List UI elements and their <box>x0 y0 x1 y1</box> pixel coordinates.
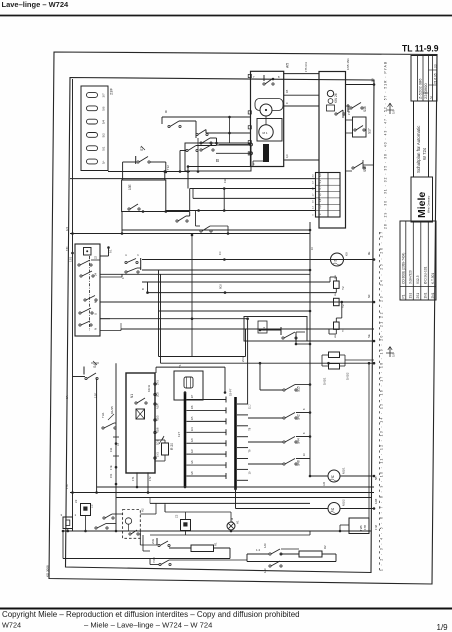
program switch dashed axis <box>89 256 91 331</box>
motor M1-2 <box>328 503 340 515</box>
switch S17 box <box>353 117 367 137</box>
svg-text:4: 4 <box>253 162 255 166</box>
switch 1-1 feed <box>260 329 281 331</box>
switch 1-1 label <box>258 321 267 333</box>
svg-text:1T5 1N1: 1T5 1N1 <box>304 61 308 72</box>
svg-text:B: B <box>141 288 145 290</box>
left edge bus wire <box>72 79 74 531</box>
bus wire y178 <box>70 178 316 180</box>
control unit bottom stubs <box>136 472 138 487</box>
bus wire y497 <box>116 497 372 499</box>
svg-text:Schaltplan für Automatic: Schaltplan für Automatic <box>416 125 421 173</box>
svg-text:17E: 17E <box>109 465 113 470</box>
svg-text:0: 0 <box>313 214 315 216</box>
svg-text:1A0: 1A0 <box>263 543 267 548</box>
svg-text:151: 151 <box>109 473 113 478</box>
svg-text:9F: 9F <box>164 110 168 113</box>
wire drive-kw 4 <box>284 159 319 161</box>
svg-text:17B: 17B <box>363 525 367 530</box>
valve coil <box>184 377 193 388</box>
svg-text:Y2: Y2 <box>341 286 345 290</box>
svg-text:Nr: Nr <box>429 96 433 99</box>
contact 9 below <box>125 271 127 273</box>
tacho wire loop <box>255 99 283 111</box>
svg-text:21.6.95: 21.6.95 <box>433 73 437 84</box>
svg-text:1T2: 1T2 <box>148 476 152 481</box>
svg-text:8: 8 <box>303 408 306 410</box>
outer drawing frame <box>49 52 437 584</box>
svg-text:S15: S15 <box>297 386 301 392</box>
svg-text:Z2: Z2 <box>90 504 94 508</box>
svg-text:4,0: 4,0 <box>313 174 315 178</box>
switch S31 <box>95 527 97 529</box>
program contact p24 <box>80 275 82 277</box>
svg-text:1/1: 1/1 <box>191 460 194 464</box>
svg-text:1/2: 1/2 <box>191 449 194 453</box>
svg-text:3N1: 3N1 <box>335 274 337 279</box>
switch contact a4 <box>186 149 188 151</box>
svg-text:Z3: Z3 <box>74 499 78 503</box>
drive unit terminals <box>248 74 251 77</box>
svg-text:K1/35: K1/35 <box>110 406 114 414</box>
program wire N out <box>100 330 121 332</box>
switch 7NW <box>159 563 161 565</box>
svg-text:T12: T12 <box>166 165 170 170</box>
valve Y1b <box>334 322 340 329</box>
svg-text:3: 3 <box>61 513 63 517</box>
svg-text:R 20: R 20 <box>170 443 174 450</box>
relay box contact b1 <box>128 208 130 210</box>
wire cluster drop <box>217 144 251 146</box>
ruler tick symbol <box>389 347 391 358</box>
svg-text:S16: S16 <box>363 106 367 112</box>
svg-text:2T2 3T6: 2T2 3T6 <box>348 105 351 115</box>
svg-text:7: 7 <box>253 75 255 79</box>
program wire 24 out <box>100 276 122 278</box>
relay box 13E <box>122 180 166 212</box>
svg-text:M1/1: M1/1 <box>342 467 346 474</box>
svg-text:5/4: 5/4 <box>102 120 106 125</box>
svg-text:3,7: 3,7 <box>318 192 322 196</box>
svg-text:10: 10 <box>313 200 315 203</box>
motor M1-1 <box>328 470 340 482</box>
wire node feed <box>162 116 251 118</box>
filter wires <box>67 529 69 532</box>
footer rule <box>0 608 452 610</box>
component B1 top contact <box>200 149 202 151</box>
Miele logo box <box>411 177 433 222</box>
svg-text:1/5: 1/5 <box>191 416 194 420</box>
resistor R2 <box>299 551 322 557</box>
svg-text:9.1: 9.1 <box>109 249 113 253</box>
svg-text:23F: 23F <box>109 88 114 95</box>
svg-text:R2: R2 <box>323 545 327 549</box>
svg-text:TL 11-9.9: TL 11-9.9 <box>402 42 439 53</box>
program contact pN <box>79 324 81 326</box>
svg-text:9D2: 9D2 <box>219 284 223 289</box>
svg-text:W 724: W 724 <box>422 147 427 160</box>
svg-text:12Ø: 12Ø <box>374 498 378 504</box>
svg-text:M: M <box>334 259 337 263</box>
svg-text:1T1: 1T1 <box>131 476 135 481</box>
switch S15 <box>283 389 285 391</box>
motor M1 frame <box>257 119 282 142</box>
svg-text:Copyright Miele – Reproduction: Copyright Miele – Reproduction et diffus… <box>2 610 300 619</box>
switch S44 <box>283 441 285 443</box>
svg-text:S48: S48 <box>297 460 301 466</box>
resistor R1 <box>191 545 214 552</box>
svg-text:8: 8 <box>303 432 306 434</box>
svg-text:4,0: 4,0 <box>285 154 289 158</box>
switch 1A0 <box>269 553 271 555</box>
contact 13C <box>140 258 142 270</box>
svg-text:2NU: 2NU <box>151 539 155 544</box>
svg-text:West Germany: West Germany <box>427 195 431 213</box>
wire S7 right drop <box>165 162 167 172</box>
bus wire y487 <box>97 486 374 488</box>
comb bar 2 drop <box>235 489 237 509</box>
svg-text:S42: S42 <box>297 414 301 420</box>
component box B1 <box>185 143 251 171</box>
svg-text:V: V <box>136 254 140 256</box>
bus wire y233 <box>70 233 310 235</box>
riser x116 <box>115 363 117 531</box>
svg-text:1/6: 1/6 <box>191 405 194 409</box>
heater branch left wire <box>143 550 150 552</box>
svg-text:1/4: 1/4 <box>191 427 194 431</box>
svg-text:2N1: 2N1 <box>156 380 160 385</box>
svg-text:N1/4: N1/4 <box>156 403 160 409</box>
svg-text:V12-5: V12-5 <box>416 275 420 284</box>
wire node row y171 <box>108 171 190 173</box>
svg-text:5/2: 5/2 <box>102 133 106 138</box>
bottom return rail <box>62 531 64 559</box>
svg-text:1N: 1N <box>218 252 222 255</box>
switch contact a1 <box>168 125 170 127</box>
switch S42 <box>283 417 285 419</box>
svg-text:28 - 29 - 30 - 31 - 32 - 35 -: 28 - 29 - 30 - 31 - 32 - 35 - 38 - 40 - … <box>384 62 388 229</box>
stub 9.1 <box>108 248 110 257</box>
svg-text:T/C: T/C <box>65 246 69 251</box>
program contact pU <box>79 312 81 314</box>
resistor R20 <box>162 443 169 455</box>
bus wire y492 <box>70 492 374 494</box>
svg-text:1N1: 1N1 <box>156 452 160 457</box>
switch 1A0b <box>269 565 271 567</box>
svg-text:N1/3: N1/3 <box>156 415 160 421</box>
switch S17 wires <box>346 119 353 121</box>
timer internal contact <box>335 113 337 115</box>
suppressor Z2b wire <box>185 512 187 520</box>
svg-text:2N1: 2N1 <box>431 292 435 298</box>
wire y512 <box>165 511 231 513</box>
svg-text:13A: 13A <box>223 178 227 183</box>
switch contact a2 <box>196 133 198 135</box>
switch S4 <box>83 367 85 375</box>
svg-text:1,7: 1,7 <box>313 193 315 197</box>
svg-text:11,7: 11,7 <box>248 404 252 409</box>
svg-text:CO 800E (2389-7404): CO 800E (2389-7404) <box>402 253 406 284</box>
program switch indicator <box>84 248 92 256</box>
pump motor M2 <box>331 253 344 266</box>
svg-text:10: 10 <box>248 471 252 474</box>
svg-text:24: 24 <box>94 272 98 276</box>
svg-text:1 - 2 - 3 - 4 - 5 - 6 - 7 - 8: 1 - 2 - 3 - 4 - 5 - 6 - 7 - 8 - 9 - 10 -… <box>380 322 384 571</box>
svg-text:1N1/1: 1N1/1 <box>323 377 327 385</box>
svg-text:SE: SE <box>367 334 371 338</box>
wire drive-kw 2 <box>284 94 319 96</box>
wire number ruler dashed line <box>379 232 381 572</box>
svg-text:1S1: 1S1 <box>69 256 73 262</box>
svg-text:W724: W724 <box>2 621 21 630</box>
bus wire y363 <box>161 362 375 364</box>
svg-text:1 2: 1 2 <box>256 548 261 552</box>
svg-text:K1/11: K1/11 <box>147 384 151 392</box>
svg-text:Y1: Y1 <box>341 328 345 332</box>
control unit box N1 <box>126 373 155 473</box>
svg-text:K.T-501: K.T-501 <box>431 273 435 284</box>
drive unit internal wire 2 <box>265 116 267 125</box>
svg-text:B: B <box>216 158 219 163</box>
connector block 23F <box>81 86 108 171</box>
bus wire y259 <box>142 259 374 261</box>
svg-text:1/9: 1/9 <box>437 623 449 632</box>
svg-text:53-P7: 53-P7 <box>229 388 233 396</box>
svg-text:S44: S44 <box>297 438 301 444</box>
svg-text:M: M <box>331 508 334 512</box>
valve Y2a <box>334 281 340 288</box>
program wire 22 <box>91 259 100 261</box>
wire S7 left drop <box>122 162 124 180</box>
svg-text:17C: 17C <box>65 484 69 489</box>
svg-text:5/1: 5/1 <box>102 146 106 151</box>
svg-text:13T: 13T <box>177 432 181 437</box>
wire timer to frame <box>346 84 375 86</box>
svg-text:M1/2: M1/2 <box>342 499 346 506</box>
program timer box 1S1 <box>319 72 346 229</box>
svg-text:Y1: Y1 <box>178 364 182 368</box>
heater 1N1 pair <box>329 352 340 358</box>
svg-text:M 1: M 1 <box>263 131 268 135</box>
svg-text:Z-5202 086: Z-5202 086 <box>418 78 423 99</box>
svg-text:1S1: 1S1 <box>409 293 413 299</box>
program contact pM <box>84 299 86 301</box>
suppressor box Z2b <box>181 520 191 531</box>
svg-text:22 - 23 - 24 - 25 - 26 - 27: 22 - 23 - 24 - 25 - 26 - 27 <box>380 232 384 318</box>
svg-text:1/0: 1/0 <box>191 471 194 475</box>
bus wire y311 <box>159 310 311 312</box>
svg-text:A2: A2 <box>141 508 145 512</box>
svg-text:5,2: 5,2 <box>318 179 322 183</box>
svg-text:2T8: 2T8 <box>231 517 234 522</box>
junction box T2B wire <box>340 524 349 526</box>
svg-text:T8: T8 <box>248 427 252 431</box>
svg-text:13: 13 <box>117 443 120 446</box>
svg-text:1N1: 1N1 <box>424 292 428 298</box>
bus wire y210 <box>166 210 316 212</box>
bus wire y302 <box>100 301 374 303</box>
bus wire y318 <box>100 318 248 320</box>
relay A2 wires <box>116 513 123 515</box>
svg-text:A/5: A/5 <box>286 63 290 68</box>
motor M1-1 wires <box>310 475 328 477</box>
contact row below B1 <box>195 211 197 227</box>
svg-text:2S1: 2S1 <box>416 293 420 299</box>
heater branch wires R2 <box>281 548 299 550</box>
heater branch wires R1 <box>169 547 191 549</box>
svg-text:H1: H1 <box>236 520 240 524</box>
svg-text:Z2: Z2 <box>175 514 179 518</box>
title block drawing-number table <box>411 56 437 102</box>
comb connector bar 2 <box>234 397 237 489</box>
svg-text:KD 3008: KD 3008 <box>46 565 50 577</box>
pump motor M2 wire <box>344 259 375 261</box>
program wire U out <box>100 318 110 320</box>
timer internal motor <box>327 90 333 96</box>
terminal strip table <box>316 173 341 218</box>
svg-text:N1/6: N1/6 <box>156 427 160 433</box>
suppressor box Z2a <box>81 504 91 516</box>
svg-text:1,2: 1,2 <box>318 205 322 209</box>
wire below 13E <box>166 211 190 213</box>
bus wire y230 <box>122 229 310 231</box>
control unit contact <box>135 402 137 404</box>
svg-text:NF: NF <box>367 294 371 298</box>
svg-text:TH1: TH1 <box>101 412 105 418</box>
header rule <box>0 15 452 17</box>
bus wire y367 <box>156 366 225 368</box>
lamp H1 wire <box>230 512 232 522</box>
heater 1N1 wires <box>345 359 374 361</box>
svg-text:P1: P1 <box>402 294 406 298</box>
svg-text:3.GH/320: 3.GH/320 <box>409 270 413 284</box>
bus wire y329 <box>121 328 374 330</box>
svg-text:U: U <box>94 313 98 315</box>
riser x160 <box>160 274 162 363</box>
svg-text:R1: R1 <box>214 542 218 546</box>
svg-text:9B: 9B <box>371 78 375 82</box>
valve Y2b wire <box>341 301 344 304</box>
valve Y1b wire <box>335 329 337 334</box>
svg-text:120: 120 <box>323 481 326 486</box>
switch 1-1 <box>280 327 282 335</box>
svg-text:1/7: 1/7 <box>191 394 194 398</box>
svg-text:N1: N1 <box>130 394 134 398</box>
svg-text:C: C <box>124 254 128 256</box>
svg-text:2N1: 2N1 <box>241 357 245 362</box>
relay box contact b2 <box>176 220 178 222</box>
lamp H1 <box>227 522 235 530</box>
junction box T2B riser <box>368 363 370 518</box>
switch 1-1 box <box>244 317 307 342</box>
svg-text:9E: 9E <box>367 251 371 255</box>
valve Y2a wire <box>335 288 337 292</box>
svg-text:9A: 9A <box>65 395 69 399</box>
title block name box Schaltplan <box>414 101 429 177</box>
control unit terminals <box>154 383 156 385</box>
svg-text:5,0: 5,0 <box>392 110 396 114</box>
svg-text:1N5 1N1: 1N5 1N1 <box>346 58 350 70</box>
junction dots bus <box>259 362 262 365</box>
svg-text:1: 1 <box>75 513 77 517</box>
svg-text:T2B: T2B <box>359 525 363 531</box>
svg-text:Lave–linge – W724: Lave–linge – W724 <box>2 0 70 9</box>
svg-text:10: 10 <box>310 247 314 250</box>
svg-text:M: M <box>331 475 334 479</box>
svg-text:7NW: 7NW <box>152 557 156 563</box>
wire drive-kw top <box>284 73 319 75</box>
wire 13E vertical <box>164 172 166 180</box>
resistor R20 wires <box>155 439 165 441</box>
tacho generator circle <box>260 104 272 116</box>
bus wire y188 <box>190 188 316 190</box>
svg-text:1D1: 1D1 <box>156 440 160 445</box>
control unit relay K1 <box>136 409 145 419</box>
svg-text:1,3: 1,3 <box>313 205 315 209</box>
wire drive unit bottom <box>188 166 251 168</box>
filter box P2 <box>63 517 73 529</box>
svg-text:4,7: 4,7 <box>313 180 315 184</box>
bus wire y535 <box>150 534 310 536</box>
svg-text:22: 22 <box>94 255 98 259</box>
valve Y2b <box>334 298 340 305</box>
switch S48 <box>283 463 285 465</box>
svg-text:1,8: 1,8 <box>318 198 322 202</box>
svg-text:S18: S18 <box>363 166 367 172</box>
svg-text:1B: 1B <box>285 90 289 93</box>
bus wire y292 <box>148 292 337 294</box>
svg-text:1N1/2: 1N1/2 <box>346 372 350 380</box>
svg-text:131: 131 <box>109 447 113 452</box>
thermostat TH1 contact <box>102 427 104 429</box>
switch S16 <box>350 107 352 109</box>
program switch box P1 <box>75 244 100 336</box>
svg-text:6,0: 6,0 <box>318 173 322 177</box>
svg-text:– Miele – Lave–linge – W724 –: – Miele – Lave–linge – W724 – W 724 <box>84 621 212 630</box>
switch S18 <box>352 167 354 169</box>
bus wire y270 <box>142 269 310 271</box>
bus wire y356 <box>159 356 246 358</box>
wire drive-kw 3 <box>284 105 319 107</box>
bus wire y531 <box>63 530 372 532</box>
capacitor dark bar <box>263 144 269 162</box>
valve box Y1 <box>174 371 203 400</box>
relay A2 dashed box <box>123 510 141 539</box>
drive unit inner switch <box>263 75 265 81</box>
riser x116 ticks <box>113 436 119 438</box>
riser x158 <box>158 270 160 357</box>
switch S18 wires <box>346 170 353 172</box>
switch S7 <box>135 156 137 164</box>
svg-text:8: 8 <box>278 75 280 79</box>
inner schematic frame <box>66 78 375 573</box>
program contact p22 <box>78 264 80 266</box>
switch S31 contact2 <box>103 517 105 519</box>
svg-text:9: 9 <box>285 102 289 104</box>
motor M1 circle <box>259 125 273 139</box>
svg-text:3/7: 3/7 <box>102 93 106 98</box>
motor M1-2 wires <box>236 508 329 510</box>
drive unit box <box>251 71 284 166</box>
svg-text:10: 10 <box>303 453 306 456</box>
bus wire y503 <box>150 502 310 504</box>
svg-text:5/6: 5/6 <box>102 106 106 111</box>
svg-text:5/-: 5/- <box>102 160 106 164</box>
svg-text:5B: 5B <box>374 476 378 480</box>
svg-text:4,7: 4,7 <box>318 186 322 190</box>
svg-text:2240900: 2240900 <box>423 83 428 99</box>
svg-text:1A0: 1A0 <box>263 568 267 573</box>
